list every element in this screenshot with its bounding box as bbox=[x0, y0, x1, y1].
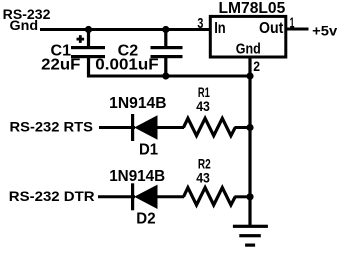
wire RTS to diode D1 bbox=[99, 126, 135, 129]
svg-text:RS-232 DTR: RS-232 DTR bbox=[9, 188, 95, 204]
junction bottom rail to ground bus bbox=[246, 72, 253, 79]
wire top rail from Gnd to regulator In pin bbox=[40, 28, 210, 31]
junction R2 at bus bbox=[246, 193, 253, 200]
diode D2 bbox=[133, 183, 158, 210]
svg-text:1N914B: 1N914B bbox=[109, 95, 166, 112]
capacitor C2 bbox=[151, 30, 183, 78]
wire R2 to bus bbox=[235, 195, 251, 198]
svg-text:43: 43 bbox=[196, 98, 210, 114]
svg-text:LM78L05: LM78L05 bbox=[219, 0, 286, 17]
svg-text:Gnd: Gnd bbox=[236, 41, 261, 58]
svg-text:2: 2 bbox=[253, 58, 260, 74]
regulator U1 LM78L05 box bbox=[210, 16, 285, 57]
wire R1 to bus bbox=[235, 126, 251, 129]
wire bottom rail bbox=[87, 75, 252, 78]
capacitor C1 (polarized) bbox=[71, 30, 105, 78]
node RS-232 Gnd label bbox=[3, 6, 51, 33]
svg-text:Out: Out bbox=[259, 20, 283, 37]
wire ground bus vertical bbox=[248, 57, 251, 226]
svg-text:D2: D2 bbox=[136, 210, 155, 227]
junction at C1 top bbox=[85, 26, 92, 33]
wire DTR to diode D2 bbox=[98, 195, 135, 198]
diode D1 bbox=[133, 114, 158, 141]
wire D2 to R2 bbox=[156, 195, 184, 198]
svg-text:RS-232 RTS: RS-232 RTS bbox=[10, 118, 94, 134]
svg-text:0.001uF: 0.001uF bbox=[95, 57, 159, 74]
svg-text:43: 43 bbox=[196, 169, 210, 185]
svg-text:D1: D1 bbox=[139, 141, 158, 158]
svg-text:+5v: +5v bbox=[312, 22, 337, 38]
ground bbox=[233, 225, 268, 247]
junction at C2 bottom bbox=[162, 72, 169, 79]
wire regulator Out to +5v bbox=[286, 28, 309, 31]
svg-text:3: 3 bbox=[197, 16, 203, 32]
svg-text:1N914B: 1N914B bbox=[109, 168, 165, 185]
junction at C2 top bbox=[162, 26, 169, 33]
resistor R1 bbox=[184, 118, 236, 135]
resistor R2 bbox=[184, 188, 236, 205]
svg-text:In: In bbox=[214, 20, 226, 37]
svg-text:Gnd: Gnd bbox=[10, 17, 39, 33]
wire D1 to R1 bbox=[156, 126, 184, 129]
svg-text:22uF: 22uF bbox=[41, 57, 80, 74]
junction R1 at bus bbox=[246, 124, 253, 131]
